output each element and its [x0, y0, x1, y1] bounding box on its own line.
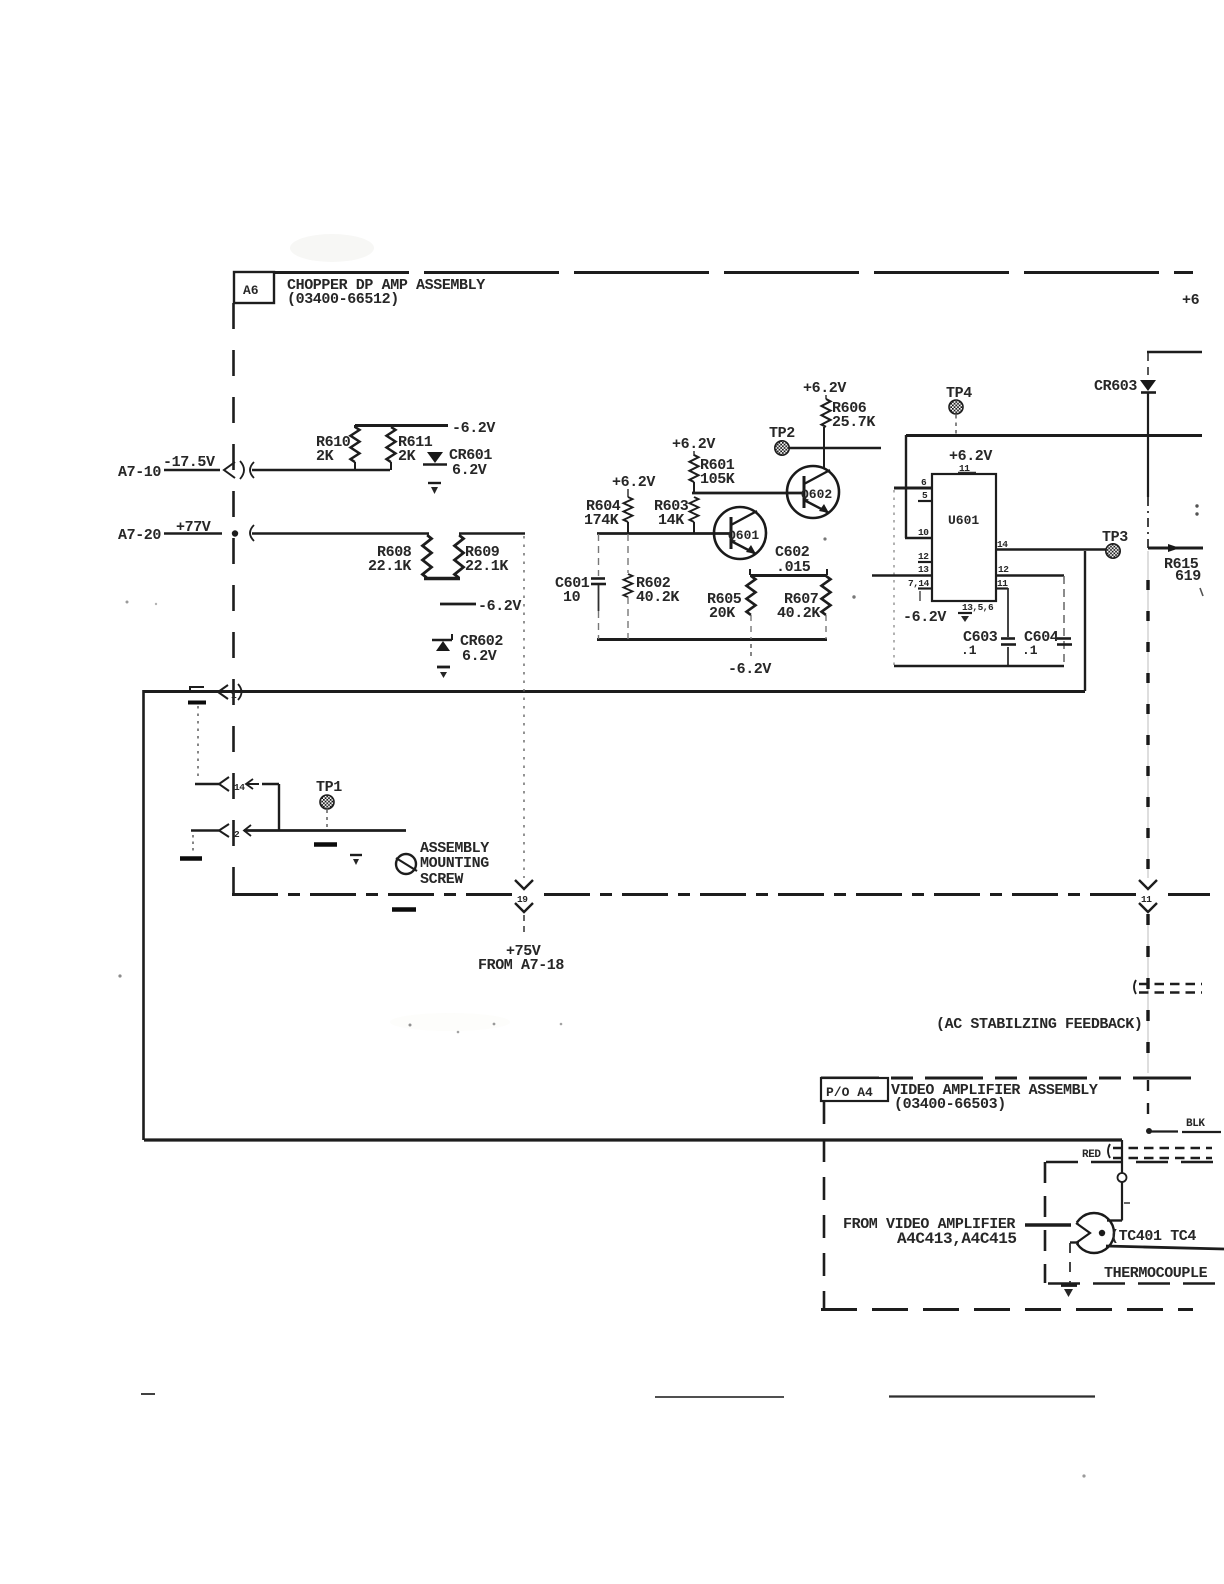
svg-text:40.2K: 40.2K: [777, 605, 820, 622]
svg-text:MOUNTING: MOUNTING: [420, 855, 489, 872]
svg-text:.1: .1: [961, 643, 977, 658]
svg-text:13: 13: [918, 564, 929, 575]
svg-text:40.2K: 40.2K: [636, 589, 679, 606]
svg-text:(03400-66512): (03400-66512): [287, 291, 399, 308]
svg-text:10: 10: [918, 527, 929, 538]
svg-text:+6.2V: +6.2V: [672, 436, 715, 453]
svg-text:TP1: TP1: [316, 779, 342, 796]
svg-text:SCREW: SCREW: [420, 871, 463, 888]
svg-text:6: 6: [921, 477, 927, 488]
svg-text:10: 10: [563, 589, 581, 606]
svg-text:A6: A6: [243, 283, 259, 298]
svg-text:TP2: TP2: [769, 425, 795, 442]
svg-text:TP4: TP4: [946, 385, 972, 402]
svg-text:14: 14: [234, 782, 245, 793]
svg-text:CR603: CR603: [1094, 378, 1137, 395]
svg-text:BLK: BLK: [1186, 1118, 1205, 1130]
svg-text:1: 1: [231, 690, 237, 701]
svg-text:5: 5: [922, 490, 928, 501]
svg-text:Q601: Q601: [728, 528, 759, 543]
svg-text:2K: 2K: [398, 448, 416, 465]
svg-text:.1: .1: [1022, 643, 1038, 658]
svg-text:-17.5V: -17.5V: [163, 454, 215, 471]
svg-text:105K: 105K: [700, 471, 735, 488]
svg-text:+6.2V: +6.2V: [612, 474, 655, 491]
svg-text:FROM A7-18: FROM A7-18: [478, 957, 564, 974]
svg-text:+6.2V: +6.2V: [803, 380, 846, 397]
svg-text:19: 19: [517, 894, 528, 905]
svg-text:A7-20: A7-20: [118, 527, 161, 544]
svg-text:THERMOCOUPLE: THERMOCOUPLE: [1104, 1265, 1208, 1282]
svg-text:22.1K: 22.1K: [465, 558, 508, 575]
svg-text:619: 619: [1175, 568, 1201, 585]
svg-text:(TC401 TC4: (TC401 TC4: [1110, 1228, 1196, 1245]
svg-text:2K: 2K: [316, 448, 334, 465]
svg-text:.015: .015: [776, 559, 811, 576]
svg-text:7,14: 7,14: [908, 578, 930, 589]
svg-text:-6.2V: -6.2V: [478, 598, 521, 615]
svg-text:22.1K: 22.1K: [368, 558, 411, 575]
svg-text:-6.2V: -6.2V: [452, 420, 495, 437]
svg-text:14K: 14K: [658, 512, 684, 529]
svg-text:+6: +6: [1182, 292, 1200, 309]
svg-text:6.2V: 6.2V: [462, 648, 497, 665]
svg-text:RED: RED: [1082, 1149, 1101, 1161]
svg-text:(03400-66503): (03400-66503): [894, 1096, 1006, 1113]
svg-text:25.7K: 25.7K: [832, 414, 875, 431]
svg-text:Q602: Q602: [801, 487, 832, 502]
svg-text:13,5,6: 13,5,6: [962, 602, 994, 613]
svg-text:11: 11: [1141, 894, 1152, 905]
svg-text:U601: U601: [948, 513, 979, 528]
svg-text:A7-10: A7-10: [118, 464, 161, 481]
svg-text:A4C413,A4C415: A4C413,A4C415: [897, 1230, 1017, 1248]
svg-text:-6.2V: -6.2V: [903, 609, 946, 626]
svg-text:+6.2V: +6.2V: [949, 448, 992, 465]
svg-text:14: 14: [997, 539, 1008, 550]
svg-text:20K: 20K: [709, 605, 735, 622]
svg-text:174K: 174K: [584, 512, 619, 529]
svg-text:6.2V: 6.2V: [452, 462, 487, 479]
svg-text:P/O A4: P/O A4: [826, 1085, 873, 1100]
svg-text:(AC STABILZING FEEDBACK): (AC STABILZING FEEDBACK): [936, 1016, 1142, 1033]
svg-text:12: 12: [918, 551, 929, 562]
svg-text:12: 12: [998, 564, 1009, 575]
svg-text:2: 2: [234, 829, 240, 840]
svg-text:11: 11: [997, 578, 1008, 589]
svg-text:-6.2V: -6.2V: [728, 661, 771, 678]
